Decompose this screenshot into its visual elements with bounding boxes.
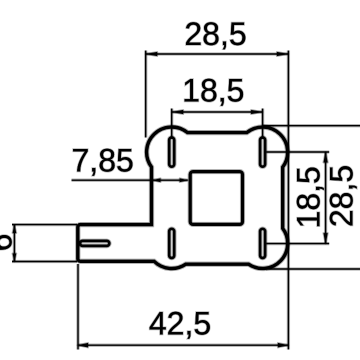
slot top-left — [169, 138, 174, 167]
dim 6 left: bottom arrow — [13, 254, 17, 262]
svg-text:6: 6 — [0, 234, 19, 252]
dim 28,5 top: right arrow — [277, 52, 289, 56]
svg-text:28,5: 28,5 — [324, 165, 360, 227]
svg-text:42,5: 42,5 — [149, 305, 211, 341]
dim 18,5 top: extension line left — [170, 109, 173, 139]
dim 18,5 right: bottom arrow — [323, 233, 327, 244]
slot bottom-left — [169, 229, 174, 258]
dim 18,5 right: extension line bottom — [267, 242, 330, 245]
part outline (mounting plate with four lobes and left tab) — [78, 127, 288, 268]
slot bottom-right — [260, 229, 265, 258]
dim 7,85: dimension line with tail — [72, 179, 188, 182]
dim 7,85: left arrow — [153, 178, 161, 182]
dim 6 left: extension line bottom — [12, 260, 77, 263]
dim 28,5 top: extension line left — [144, 51, 147, 138]
dim 42,5 bottom: right arrow — [278, 343, 289, 348]
dim 28,5 right: extension line bottom — [266, 267, 360, 270]
dim 42,5 bottom: extension line left — [76, 264, 79, 350]
dim 18,5 top: left arrow — [172, 110, 184, 114]
dim 6 left: extension line top — [12, 223, 77, 226]
dim 18,5 right: dimension line — [324, 152, 327, 244]
dim 6 left: dimension line — [13, 225, 16, 262]
dim 42,5 bottom: dimension line — [78, 344, 288, 347]
svg-text:18,5: 18,5 — [182, 72, 244, 108]
dim 28,5 right: extension line top — [263, 124, 360, 127]
dim 18,5 right: top arrow — [323, 152, 327, 163]
dim 18,5 right: extension line top — [267, 150, 330, 153]
dim 28,5 top: left arrow — [146, 52, 158, 56]
dim 18,5 top: dimension line — [172, 110, 263, 113]
dim 28,5 top: dimension line — [146, 52, 289, 55]
central square hole — [190, 172, 242, 225]
dim 28,5/42,5 shared extension line right — [287, 51, 290, 350]
slot top-right — [260, 138, 265, 167]
svg-text:28,5: 28,5 — [184, 16, 246, 52]
slot in tab (horizontal) — [80, 241, 109, 246]
dim 42,5 bottom: left arrow — [78, 343, 89, 348]
dim 18,5 top: right arrow — [251, 110, 263, 114]
dim 18,5 top: extension line right — [261, 109, 264, 139]
svg-text:18,5: 18,5 — [291, 166, 327, 228]
dim 7,85: right arrow — [180, 178, 188, 182]
dim 6 left: top arrow — [13, 225, 17, 233]
svg-text:7,85: 7,85 — [72, 143, 134, 179]
